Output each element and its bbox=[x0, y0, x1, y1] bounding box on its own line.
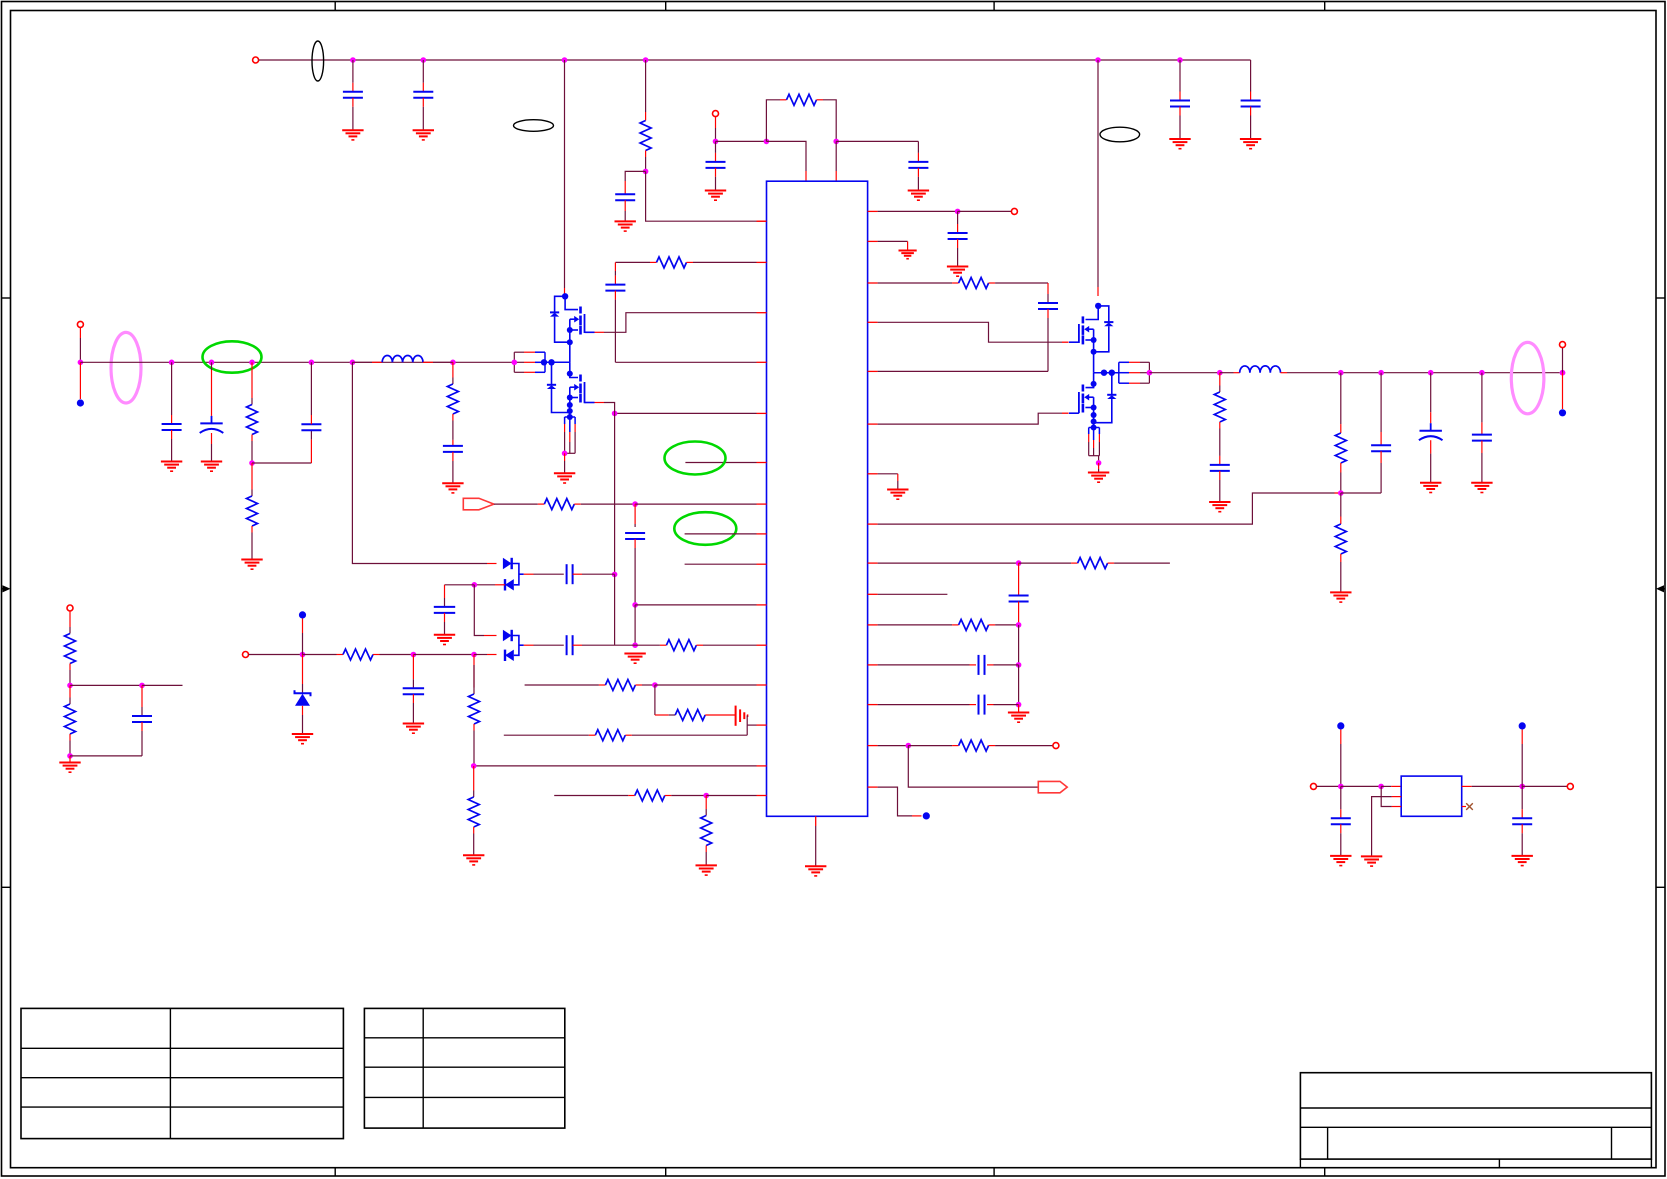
node N22 bbox=[1217, 370, 1223, 376]
ground bbox=[1471, 482, 1492, 484]
diode D1 bbox=[503, 558, 512, 569]
wire pin r15 to NC dot bbox=[878, 787, 912, 816]
capacitor C16 polarized bbox=[211, 362, 213, 370]
ground bbox=[1098, 463, 1100, 469]
wire J8 to N28 bbox=[249, 654, 303, 656]
wire N5 down bbox=[614, 413, 616, 574]
node N8 bbox=[632, 602, 638, 608]
blue dot marker bbox=[299, 611, 306, 618]
resistor R6 bbox=[605, 680, 635, 691]
wire pin r13 to C14 bbox=[878, 704, 970, 706]
wire N1 to U1 pin1 bbox=[646, 171, 757, 221]
no-connect X bbox=[1462, 806, 1466, 808]
wire J5 down bbox=[79, 327, 81, 338]
wire pin4 VO sense bbox=[615, 361, 756, 363]
wire N24 to C24 bbox=[445, 584, 475, 586]
wire P1 to R4 bbox=[494, 503, 538, 505]
wire pin r12 to C13 bbox=[878, 664, 970, 666]
node N24 bbox=[472, 582, 478, 588]
node N32 bbox=[1338, 784, 1344, 790]
node N31 bbox=[471, 763, 477, 769]
capacitor C9 bbox=[634, 504, 636, 524]
terminal J1 top-left bbox=[253, 57, 259, 63]
wire N33 to U2 pin1 bbox=[1381, 785, 1391, 787]
node N16 bbox=[1016, 702, 1022, 708]
capacitor C3 bbox=[615, 193, 635, 195]
wire R4 to N7 bbox=[574, 503, 581, 505]
diode D3 bbox=[503, 630, 512, 641]
node N14 bbox=[1016, 622, 1022, 628]
resistor R5 bbox=[635, 644, 660, 646]
capacitor C22 bbox=[1481, 373, 1483, 423]
ground bbox=[1018, 705, 1020, 713]
resistor R16 bbox=[251, 463, 253, 490]
border right center arrow bbox=[1662, 588, 1665, 590]
wire pin r11 to R13 bbox=[878, 624, 953, 626]
wire N3 to U1 top pin a bbox=[766, 141, 806, 171]
wire input dot bbox=[79, 362, 81, 399]
wire vreg out top bbox=[1521, 730, 1523, 745]
resistor R21 bbox=[69, 611, 71, 627]
blue dot marker bbox=[923, 812, 930, 819]
capacitor C15 bbox=[171, 362, 173, 415]
node N2 bbox=[713, 139, 719, 145]
ground bbox=[615, 220, 636, 222]
capacitor C27 bbox=[412, 655, 414, 680]
ground bbox=[696, 864, 717, 866]
terminal J10 bbox=[1567, 783, 1573, 789]
capacitor C17 bbox=[310, 439, 312, 463]
sense resistor RS3 box bbox=[1119, 361, 1129, 363]
node N19 bbox=[249, 460, 255, 466]
resistor R23 bbox=[343, 649, 373, 660]
node output junctions bbox=[1338, 370, 1344, 376]
resistor R15 bbox=[251, 362, 253, 398]
resistor R24 bbox=[473, 655, 475, 688]
wire pin r3 to R11 bbox=[878, 282, 953, 284]
sense resistor RS4 box bbox=[1088, 428, 1090, 435]
terminal J5 input bbox=[77, 321, 83, 327]
terminal J4 bbox=[1053, 743, 1059, 749]
green ellipse marker G2 bbox=[674, 512, 736, 545]
terminal J8 bbox=[243, 652, 249, 658]
wire input main line bbox=[80, 361, 514, 363]
table revision block middle bbox=[364, 1008, 564, 1128]
capacitor C19 bbox=[1219, 456, 1221, 465]
wire N1 to C3 bbox=[625, 171, 645, 181]
wire N25 right bbox=[70, 684, 142, 686]
capacitor C28 bbox=[1340, 786, 1342, 809]
node N13 bbox=[1016, 560, 1022, 566]
node main junctions bbox=[169, 360, 175, 366]
green ellipse marker G1 bbox=[665, 442, 726, 475]
resistor R13 bbox=[959, 619, 989, 630]
wire pin3 to Q1 gate bbox=[604, 313, 757, 333]
wire pin r6 to Q4 gate bbox=[878, 413, 1062, 424]
border top ticks bbox=[334, 2, 336, 11]
wire bare to R9 bbox=[554, 795, 628, 797]
resistor R12 bbox=[1078, 558, 1108, 569]
node N18 bbox=[78, 360, 84, 366]
wire stub pin6 bbox=[685, 462, 756, 464]
wire pin r5 bbox=[878, 370, 1048, 372]
diode D7 body Q3 bbox=[1098, 306, 1109, 322]
pink ellipse marker P2 bbox=[1511, 342, 1544, 413]
wire R8 line bbox=[632, 734, 747, 736]
ground bbox=[624, 653, 645, 655]
ground bbox=[1330, 591, 1351, 593]
terminal J9 bbox=[1311, 783, 1317, 789]
transistor Q4 low-side right bbox=[1091, 381, 1097, 387]
resistor R11 bbox=[959, 278, 989, 289]
capacitor C23 series bbox=[566, 564, 568, 584]
wire to R1 bbox=[645, 60, 647, 112]
ground bbox=[805, 865, 826, 867]
capacitor C24 bbox=[444, 585, 446, 598]
black ellipse marker E2 bbox=[1100, 127, 1140, 142]
terminal J2 bbox=[713, 111, 719, 117]
port P1 COMP bbox=[463, 498, 494, 510]
wire pin r7 to gnd bbox=[878, 473, 898, 475]
ground small bbox=[899, 250, 917, 252]
title block bottom right bbox=[1300, 1073, 1651, 1159]
ground bbox=[564, 453, 566, 461]
table revision block left bbox=[21, 1008, 343, 1138]
U1 right pin stubs bbox=[868, 210, 878, 212]
node N12 bbox=[955, 209, 961, 215]
wire pin r14 bbox=[878, 745, 909, 747]
capacitor C2 bbox=[422, 60, 424, 83]
node N15 bbox=[1016, 662, 1022, 668]
capacitor C29 bbox=[1521, 786, 1523, 809]
ground bbox=[463, 854, 484, 856]
green ellipse marker G3 bbox=[203, 341, 262, 372]
wire phase to boot diode D1 bbox=[352, 362, 487, 563]
wire bare to R6 bbox=[525, 684, 599, 686]
inductor L1 bbox=[352, 361, 372, 363]
wire output rail bbox=[1341, 372, 1560, 374]
border left center arrow bbox=[2, 588, 6, 590]
capacitor C7 bbox=[917, 141, 919, 153]
wire N11 to U1 bbox=[706, 795, 756, 797]
ground bbox=[442, 482, 463, 484]
capacitor C18 bbox=[452, 440, 454, 446]
port P2 PGOOD bbox=[1038, 781, 1067, 792]
node N3 bbox=[764, 139, 770, 145]
capacitor C1 bbox=[352, 60, 354, 83]
diode D2 bbox=[504, 579, 506, 590]
wire pin r8 long to output divider bbox=[878, 493, 1335, 524]
resistor R20 divider bottom bbox=[1340, 493, 1342, 517]
resistor R22 bbox=[69, 685, 71, 697]
node N5 bbox=[612, 411, 618, 417]
node N26 bbox=[139, 683, 145, 689]
wire boot mid2 to C25 bbox=[519, 644, 524, 646]
IC U2 regulator bbox=[1401, 776, 1462, 816]
node N29 bbox=[411, 652, 417, 658]
wire D2 to N24 bbox=[495, 584, 505, 586]
node N27 bbox=[67, 753, 73, 759]
wire N10 to U1 bbox=[655, 684, 757, 686]
wire to Q1 drain bbox=[564, 60, 566, 288]
node N1 bbox=[643, 169, 649, 175]
wire pin r9 bbox=[878, 562, 1019, 564]
ground bbox=[292, 733, 313, 735]
pink ellipse marker P1 bbox=[111, 332, 141, 403]
analog ground AGND bbox=[705, 714, 735, 716]
U1 bottom pin wire bbox=[815, 816, 817, 826]
wire boot mid to C23 bbox=[519, 573, 524, 575]
wire C20 bottom to N23 bbox=[1341, 492, 1381, 494]
resistor R4 bbox=[544, 499, 574, 510]
blue dot marker bbox=[1519, 722, 1526, 729]
U1 left pin stubs bbox=[757, 220, 767, 222]
ground bbox=[1209, 501, 1230, 503]
ground bbox=[69, 756, 71, 762]
capacitor C13 series bbox=[978, 655, 980, 675]
resistor R25 bbox=[473, 766, 475, 791]
wire vreg in bbox=[1340, 730, 1342, 745]
black ellipse marker E3 bbox=[514, 120, 554, 132]
wire N10 down to R7 bbox=[654, 685, 656, 715]
capacitor C12 bbox=[1018, 563, 1020, 595]
node N34 bbox=[1519, 784, 1525, 790]
blue dot marker bbox=[77, 399, 84, 406]
wire N19 to C17 bbox=[252, 462, 311, 464]
wire N8 to U1 pin bbox=[635, 604, 756, 606]
node N21 bbox=[1098, 456, 1100, 463]
wire pin13 step bbox=[747, 724, 756, 726]
wire phase blue bbox=[545, 361, 570, 363]
wire U2 out bbox=[1462, 785, 1472, 787]
ground bbox=[1420, 482, 1441, 484]
resistor R7 bbox=[675, 710, 705, 721]
diode D6 body Q2 bbox=[551, 362, 553, 384]
resistor R18 bbox=[1219, 373, 1221, 386]
terminal J3 bbox=[1011, 208, 1017, 214]
wire U2 pin2 to gnd bbox=[1392, 796, 1402, 798]
wire phase to L2 bbox=[1149, 372, 1219, 374]
wire N4 to C7 bbox=[836, 140, 918, 142]
capacitor C4 bbox=[1179, 60, 1181, 92]
capacitor C5 bbox=[1250, 60, 1252, 92]
resistor R19 divider top bbox=[1340, 373, 1342, 424]
wire pin5 to node N5 bbox=[615, 412, 757, 414]
node N30 bbox=[471, 652, 477, 658]
capacitor C8 bbox=[614, 262, 616, 271]
capacitor C10 bbox=[957, 211, 959, 224]
wire N2 to N3 bbox=[716, 140, 767, 142]
resistor R9 bbox=[635, 790, 665, 801]
ground bbox=[403, 723, 424, 725]
node N4 bbox=[833, 139, 839, 145]
wire N5 to Q2 gate bbox=[604, 403, 615, 414]
capacitor C20 bbox=[1380, 373, 1382, 432]
wire stub pin8 bbox=[685, 533, 757, 535]
wire phase blue right bbox=[1094, 372, 1119, 374]
resistor R8 bbox=[595, 730, 625, 741]
sense resistor RS2 box bbox=[564, 417, 566, 424]
diode D4 bbox=[504, 650, 506, 661]
black ellipse marker E1 bbox=[312, 41, 324, 81]
ground bbox=[241, 559, 262, 561]
node N33 bbox=[1378, 784, 1384, 790]
wire N8 down bbox=[634, 605, 636, 645]
transistor Q2 low-side left bbox=[567, 371, 573, 377]
node N10 bbox=[652, 682, 658, 688]
wire to Q3 drain bbox=[1097, 60, 1099, 287]
wire N17 to port P2 bbox=[908, 746, 1038, 788]
border bottom ticks bbox=[334, 1168, 336, 1176]
node phase right bbox=[1147, 370, 1153, 376]
node N23 bbox=[1338, 490, 1344, 496]
diode D9 zener bbox=[302, 655, 304, 685]
node N11 bbox=[703, 793, 709, 799]
terminal J7 bbox=[67, 605, 73, 611]
capacitor C14 series bbox=[978, 695, 980, 715]
inductor L2 bbox=[1220, 372, 1234, 374]
wire long pin14 bbox=[474, 765, 757, 767]
terminal J6 output bbox=[1560, 370, 1566, 376]
ground bbox=[434, 634, 455, 636]
resistor R1 bbox=[645, 112, 647, 121]
border left ticks bbox=[2, 297, 11, 299]
node N9 bbox=[632, 642, 638, 648]
resistor R2 bbox=[766, 100, 780, 142]
diode D8 body Q4 bbox=[1111, 373, 1113, 395]
wire N7 to U1 bbox=[635, 503, 756, 505]
blue dot marker bbox=[1337, 722, 1344, 729]
capacitor C11 bootstrap bbox=[1047, 283, 1049, 294]
sense resistor RS1 box bbox=[514, 351, 524, 353]
transistor Q1 high-side left bbox=[562, 293, 568, 299]
wire N28 to R23 bbox=[303, 654, 337, 656]
wire pin r4 to Q3 gate bbox=[878, 322, 1062, 342]
resistor R3 bbox=[657, 257, 687, 268]
ground bbox=[887, 489, 908, 491]
blue dot marker bbox=[1559, 409, 1566, 416]
node N7 bbox=[632, 501, 638, 507]
wire J2 down bbox=[715, 117, 717, 128]
wire C26 bottom to N27 bbox=[70, 755, 142, 757]
transistor Q3 high-side right bbox=[1095, 303, 1101, 309]
wire N4 to U1 top pin b bbox=[835, 141, 837, 171]
diode D5 body Q1 bbox=[555, 296, 566, 312]
wire N24 down to D3 bbox=[474, 585, 484, 636]
node phase left bbox=[512, 360, 518, 366]
wire top rail bbox=[259, 59, 1251, 61]
border right ticks bbox=[1656, 297, 1665, 299]
wire pin r1 to J3 bbox=[878, 210, 958, 212]
IC U1 bbox=[767, 181, 868, 816]
wire stub pin r10 bbox=[878, 593, 948, 595]
wire R3 line pin2 bbox=[615, 261, 650, 263]
capacitor C21 polarized bbox=[1430, 373, 1432, 413]
node N17 bbox=[906, 743, 912, 749]
node N20 bbox=[562, 451, 568, 457]
capacitor C25 series bbox=[566, 635, 568, 655]
node N28 bbox=[300, 652, 306, 658]
wire pin r2 to gnd bbox=[878, 240, 908, 242]
capacitor C6 bbox=[715, 141, 717, 153]
node N6 bbox=[612, 572, 618, 578]
node top rail junctions bbox=[350, 57, 356, 63]
resistor R14 bbox=[959, 740, 989, 751]
node N25 bbox=[67, 683, 73, 689]
wire stub pin9 bbox=[685, 563, 757, 565]
capacitor C26 bbox=[141, 685, 143, 707]
resistor R10 bbox=[705, 796, 707, 810]
resistor R17 bbox=[452, 362, 454, 377]
wire U2 pin3 to N33 bbox=[1392, 806, 1402, 808]
ground bbox=[1361, 855, 1382, 857]
